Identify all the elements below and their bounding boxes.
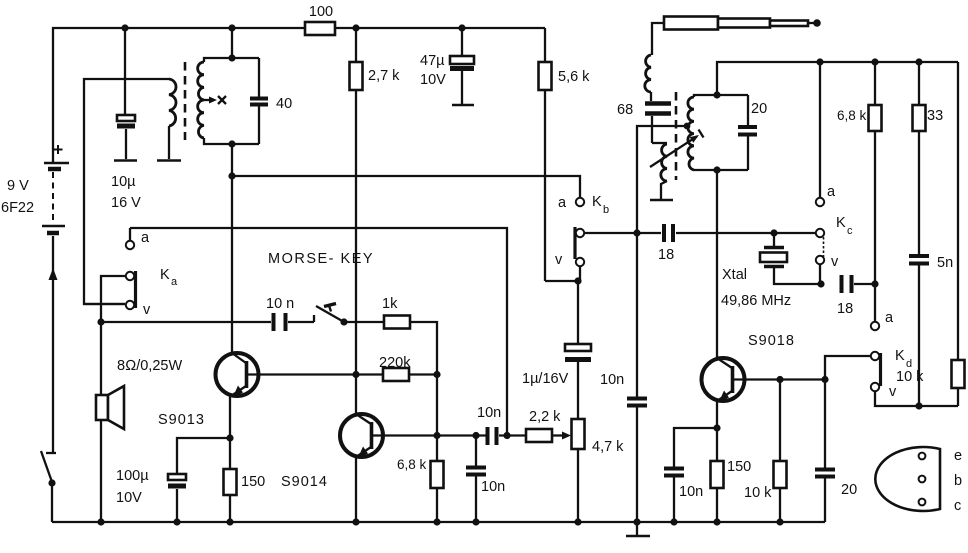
svg-text:b: b [603, 204, 609, 216]
node rail 6.8k [871, 58, 878, 65]
capacitor 47u/10V [420, 28, 474, 105]
node Xtal top [770, 229, 777, 236]
wire 5.6k to Kb v node [545, 280, 578, 282]
wire speaker branch [100, 322, 102, 522]
transformer T1 tap arrow and x mark [204, 96, 226, 104]
wire bottom ground rail [52, 521, 825, 523]
node coupling junction [503, 432, 510, 439]
svg-text:10 k: 10 k [744, 485, 772, 501]
node tank bottom [228, 140, 235, 147]
node 150-rail right [713, 518, 720, 525]
node rail-10u [121, 24, 128, 31]
resistor 1k [382, 296, 410, 329]
battery 9V 6F22 [1, 145, 69, 233]
wire tank bottom down to S9013 collector [231, 144, 233, 353]
node S9018 emitter junction [713, 424, 720, 431]
svg-text:18: 18 [837, 301, 853, 317]
svg-text:S9014: S9014 [281, 474, 328, 490]
crystal Xtal 49.86MHz [721, 233, 821, 309]
resistor 100 [305, 4, 335, 35]
node tank2 top [713, 91, 720, 98]
resistor 10k right edge [896, 62, 965, 406]
node rail-tank [228, 24, 235, 31]
node tap to Kb feed [228, 172, 235, 179]
resistor 6.8k right [837, 62, 882, 284]
node S9014 emitter rail [352, 518, 359, 525]
wire T2 tap to Kb pole [637, 126, 687, 233]
svg-text:49,86 MHz: 49,86 MHz [721, 293, 791, 309]
wire battery to switch with up arrow [49, 236, 58, 452]
capacitor 5n [909, 255, 953, 406]
svg-text:e: e [954, 448, 962, 464]
resistor 10k bias [744, 380, 787, 523]
svg-text:10µ: 10µ [111, 174, 136, 190]
capacitor 18 series Kb [658, 224, 774, 263]
wire S9014 emitter [355, 456, 357, 522]
ground T1 primary [157, 159, 181, 162]
capacitor 20 tank [738, 95, 767, 170]
svg-text:6F22: 6F22 [1, 200, 34, 216]
node 6.8k top [433, 432, 440, 439]
capacitor 10n shunt S9014 [466, 436, 505, 523]
node 5n bottom [915, 402, 922, 409]
svg-text:a: a [558, 195, 567, 211]
resistor 150 emitter [224, 438, 266, 522]
transformer T1 core [184, 62, 187, 140]
svg-text:9 V: 9 V [7, 178, 29, 194]
wire 2.7k down to S9014 collector [355, 90, 357, 414]
svg-text:5,6 k: 5,6 k [558, 69, 590, 85]
transformer T1 primary coil [169, 79, 176, 159]
capacitor 40 [250, 58, 292, 144]
node Kb v junction [574, 277, 581, 284]
svg-text:16 V: 16 V [111, 195, 141, 211]
resistor 150 S9018 [711, 428, 752, 522]
capacitor 1u/16V [522, 281, 591, 387]
svg-text:5n: 5n [937, 255, 953, 271]
capacitor 68 [617, 92, 671, 143]
svg-text:20: 20 [841, 482, 857, 498]
svg-text:68: 68 [617, 102, 633, 118]
svg-text:K: K [895, 348, 905, 364]
svg-text:1µ/16V: 1µ/16V [522, 371, 569, 387]
switch Kd contact v [871, 383, 958, 406]
svg-text:40: 40 [276, 96, 292, 112]
node pot rail [574, 518, 581, 525]
svg-text:a: a [827, 184, 836, 200]
svg-text:150: 150 [241, 474, 265, 490]
transformer T2 core [675, 92, 678, 180]
node 220k right [433, 371, 440, 378]
capacitor 10n oscillator shunt [600, 233, 647, 522]
speaker 8ohm 0.25W [96, 358, 182, 429]
adjustable core arrow [650, 130, 704, 168]
switch Kc pole and arm [774, 229, 824, 257]
switch Kb pole and arm [575, 227, 661, 259]
node rail-47u [458, 24, 465, 31]
wire top supply rail right section [335, 27, 545, 29]
svg-text:c: c [954, 498, 961, 514]
svg-text:100µ: 100µ [116, 468, 149, 484]
switch Kd contact a [871, 284, 912, 370]
wire key to 1k [344, 321, 384, 323]
svg-text:b: b [954, 473, 962, 489]
svg-text:v: v [831, 254, 839, 270]
wire S9018 emitter [716, 400, 718, 428]
switch Ka contact v [84, 301, 151, 318]
node Kc v Xtal bottom [817, 280, 824, 287]
node Ka-speaker junction [97, 318, 104, 325]
node tank top [228, 28, 235, 62]
switch Kb contact v [555, 252, 584, 281]
node 10n rail [472, 518, 479, 525]
svg-text:100: 100 [309, 4, 333, 20]
svg-text:a: a [885, 310, 894, 326]
node rail Kc [816, 58, 823, 65]
svg-text:10n: 10n [679, 484, 703, 500]
node S9013 base node [352, 371, 359, 378]
wire node to Kb contact a [232, 176, 580, 198]
resistor 2.7k [350, 28, 401, 90]
svg-text:K: K [592, 194, 602, 210]
wire tank2 bottom to S9018 collector [716, 170, 718, 358]
resistor 5.6k [539, 28, 591, 281]
svg-text:1k: 1k [382, 296, 398, 312]
ground coupling coil [650, 199, 673, 202]
transistor S9014 [281, 414, 437, 490]
switch Ka pole and arm [101, 267, 178, 322]
svg-text:c: c [847, 225, 853, 237]
transistor S9013 [158, 353, 356, 428]
wire S9013 emitter [229, 395, 231, 438]
resistor 2.2k [526, 409, 571, 442]
node speaker-rail [97, 518, 104, 525]
svg-text:K: K [160, 267, 170, 283]
node tank2 bottom [713, 166, 720, 173]
transformer T2 tank coil [688, 95, 748, 170]
svg-text:10V: 10V [116, 490, 142, 506]
svg-text:v: v [555, 252, 563, 268]
svg-text:10 k: 10 k [896, 369, 924, 385]
capacitor 10n series coupling [477, 405, 526, 445]
node S9018 base 10k [776, 376, 783, 383]
svg-text:8Ω/0,25W: 8Ω/0,25W [117, 358, 182, 374]
svg-text:S9013: S9013 [158, 412, 205, 428]
svg-text:2,2 k: 2,2 k [529, 409, 561, 425]
capacitor 10n morse series [266, 296, 314, 331]
node Kb pole junction [633, 229, 640, 236]
capacitor 10n emitter [664, 428, 717, 522]
svg-text:220k: 220k [379, 355, 411, 371]
svg-text:v: v [143, 302, 151, 318]
antenna telescopic [652, 17, 821, 56]
svg-text:150: 150 [727, 459, 751, 475]
switch Kc contact v [816, 254, 839, 284]
node T2 tap [684, 123, 691, 130]
switch on-off power [41, 451, 56, 522]
svg-text:S9018: S9018 [748, 333, 795, 349]
svg-text:6,8 k: 6,8 k [837, 108, 867, 123]
svg-text:10n: 10n [600, 372, 624, 388]
svg-text:K: K [836, 215, 846, 231]
transistor S9018 [702, 333, 826, 402]
switch Kc contact a [816, 62, 853, 237]
inductor antenna coupling coil [652, 143, 667, 199]
capacitor 100u/10V [116, 438, 230, 522]
svg-text:20: 20 [751, 101, 767, 117]
node 10n rail and chassis ground [626, 518, 650, 536]
svg-text:a: a [171, 276, 178, 288]
TO-92 package outline [875, 447, 962, 514]
node 10k-rail [776, 518, 783, 525]
svg-text:Xtal: Xtal [722, 267, 747, 283]
svg-text:6,8 k: 6,8 k [397, 457, 427, 472]
wire base line to 10n [437, 434, 486, 436]
wire morse key line [101, 321, 271, 323]
morse key switch [268, 251, 374, 326]
svg-text:10 n: 10 n [266, 296, 294, 312]
svg-text:v: v [889, 384, 897, 400]
node 10n-rail right [670, 518, 677, 525]
svg-text:10n: 10n [481, 479, 505, 495]
svg-text:2,7 k: 2,7 k [368, 68, 400, 84]
wire Ka contact a to S9014 input node [130, 228, 507, 436]
node 150-rail [226, 518, 233, 525]
resistor 6.8k [397, 436, 444, 523]
capacitor 10u/16V [111, 28, 141, 211]
svg-text:4,7 k: 4,7 k [592, 439, 624, 455]
svg-text:47µ: 47µ [420, 53, 445, 69]
inductor antenna coil [645, 55, 651, 92]
node rail 33 [915, 58, 922, 65]
node rail-2.7k [352, 24, 359, 31]
node 10n shunt top [472, 432, 479, 439]
capacitor 20 feedback [815, 380, 857, 523]
node S9013 emitter junction [226, 434, 233, 441]
svg-text:10V: 10V [420, 72, 446, 88]
node 18 to 6.8k bottom [871, 280, 878, 287]
wire 1k to right riser [410, 322, 437, 375]
transformer T1 secondary coil [198, 58, 259, 144]
svg-text:MORSE- KEY: MORSE- KEY [268, 251, 374, 267]
switch Kb contact a [558, 194, 609, 216]
node S9018 base 20 [821, 376, 828, 383]
svg-text:18: 18 [658, 247, 674, 263]
node 100u-rail [173, 518, 180, 525]
svg-text:a: a [141, 230, 150, 246]
wire riser 220k to base line [436, 375, 438, 437]
switch Kd pole and arm [825, 352, 881, 386]
wire battery node to transformer primary [84, 79, 169, 304]
potentiometer 4.7k [572, 362, 625, 522]
node 6.8k rail [433, 518, 440, 525]
wire tank2 top to right rail [717, 62, 958, 95]
svg-text:33: 33 [927, 108, 943, 124]
switch Ka contact a [126, 228, 150, 249]
resistor 33 [913, 62, 944, 254]
wire top supply rail left section [53, 28, 305, 163]
capacitor 18 second [837, 275, 875, 317]
resistor 220k [356, 355, 437, 381]
svg-text:10n: 10n [477, 405, 501, 421]
